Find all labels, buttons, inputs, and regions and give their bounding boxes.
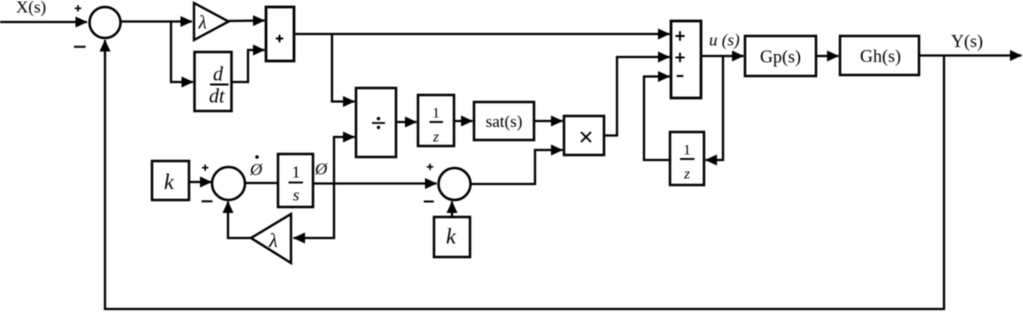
sign + at S1 — [75, 5, 81, 11]
svg-text:Gh(s): Gh(s) — [860, 46, 901, 67]
sign + at S2 — [202, 165, 208, 171]
fraction bar of d/dt — [210, 84, 229, 86]
svg-text:k: k — [164, 169, 175, 194]
symbol ÷ in divider — [372, 122, 385, 124]
svg-text:X(s): X(s) — [16, 0, 46, 17]
svg-text:u (s): u (s) — [709, 31, 740, 50]
block d/dt — [195, 52, 232, 111]
gain λ2 triangle — [251, 214, 291, 263]
block sat(s) — [474, 102, 534, 140]
block k1 — [152, 161, 189, 200]
block divider ÷ — [356, 88, 396, 157]
svg-text:z: z — [683, 167, 690, 183]
svg-text:Gp(s): Gp(s) — [760, 47, 801, 68]
fraction bar of 1/z feedback — [680, 158, 695, 160]
summing junction S3 — [439, 168, 471, 200]
wire adder to summer (long top line) — [294, 33, 670, 35]
svg-text:Ø: Ø — [249, 160, 263, 179]
gain λ1 triangle — [194, 3, 229, 40]
wire k1 to S2 — [189, 181, 212, 183]
wire d/dt to adder — [232, 50, 265, 82]
svg-text:z: z — [432, 130, 439, 146]
block 1/z feedback — [670, 132, 704, 185]
summing junction S2 — [212, 167, 245, 200]
svg-text:λ: λ — [268, 230, 278, 252]
svg-text:Ø: Ø — [314, 160, 328, 179]
sign + top in summer — [675, 31, 684, 40]
wire k2 to S3 — [451, 202, 453, 218]
sign - bottom in summer — [677, 75, 684, 77]
wire X(s) input — [0, 21, 87, 23]
block Gp(s) — [745, 36, 816, 76]
summer block (+ + -) — [671, 21, 701, 98]
wire S3 to multiplier input 2 — [471, 150, 563, 184]
wire sat(s) to multiplier — [534, 120, 563, 122]
summing junction S1 — [90, 7, 121, 38]
wire summer output u(s) to Gp — [701, 55, 744, 57]
svg-text:Y(s): Y(s) — [951, 31, 983, 52]
symbol × in multiplier — [581, 132, 591, 142]
block Gh(s) — [840, 36, 919, 75]
wire feedback from output to S1 — [105, 40, 944, 309]
sign − at S3 — [424, 201, 434, 203]
sign − at S1 — [74, 46, 86, 48]
svg-text:sat(s): sat(s) — [486, 112, 523, 131]
wire 1/s (φ) to S3 — [313, 182, 437, 184]
wire λ1 to adder — [228, 19, 265, 22]
wire branch φ down to gain λ2 — [294, 184, 335, 239]
wire output Y(s) — [919, 54, 1022, 56]
wire branch down to divider input 1 — [332, 34, 355, 102]
dot of φ dot — [255, 155, 259, 159]
sign + middle in summer — [675, 53, 684, 62]
svg-text:λ: λ — [198, 13, 207, 34]
svg-text:s: s — [293, 186, 300, 205]
wire λ2 to S2 — [228, 202, 251, 239]
svg-text:1: 1 — [292, 163, 301, 182]
wire S2 to 1/s — [245, 182, 278, 184]
sign + in adder — [276, 35, 283, 42]
svg-text:d: d — [213, 64, 224, 86]
svg-text:1: 1 — [683, 143, 691, 159]
block 1/s — [278, 154, 313, 207]
adder block + — [266, 7, 294, 61]
sign − at S2 — [202, 200, 213, 202]
wire branch S1 down to d/dt — [171, 22, 193, 83]
wire 1/z to sat(s) — [454, 120, 473, 122]
wire 1/z feedback to summer minus input — [644, 77, 670, 161]
wire branch φ up to divider input 2 — [334, 137, 355, 184]
svg-text:1: 1 — [432, 106, 440, 122]
wire Gp to Gh — [816, 55, 839, 57]
block 1/z (first) — [418, 95, 454, 146]
wire multiplier to summer input 2 — [604, 57, 670, 136]
svg-text:dt: dt — [209, 86, 225, 108]
wire divider to 1/z — [396, 121, 417, 123]
fraction bar of 1/s — [289, 182, 304, 184]
svg-text:k: k — [446, 224, 457, 249]
block multiplier × — [564, 116, 604, 155]
block k2 — [434, 217, 470, 257]
sign + at S3 — [427, 164, 433, 170]
wire S1 to gain λ1 — [121, 20, 193, 22]
fraction bar of 1/z first — [430, 121, 444, 123]
wire branch u(s) down to 1/z feedback — [706, 56, 724, 160]
